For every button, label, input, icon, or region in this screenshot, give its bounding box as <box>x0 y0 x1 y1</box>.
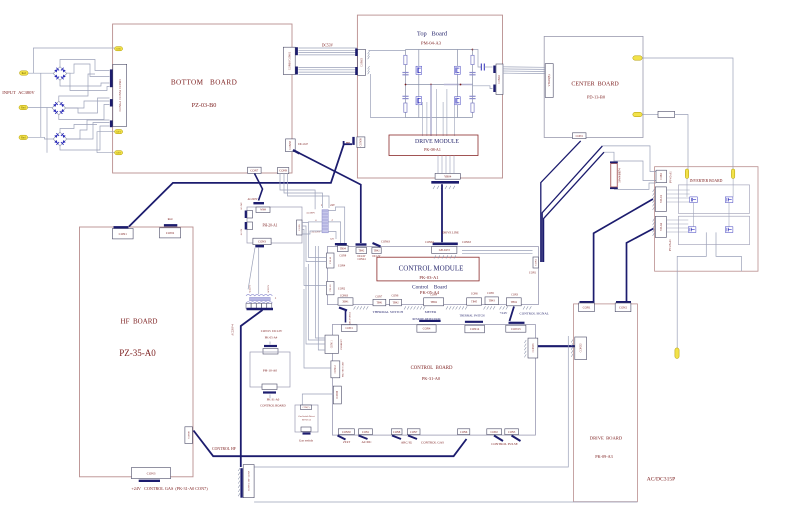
svg-text:CON5: CON5 <box>298 224 301 231</box>
pin bar CON50 <box>352 137 354 145</box>
transformer T2 secondary scallops <box>246 302 272 303</box>
wire arc force down <box>345 311 347 323</box>
svg-text:CON1: CON1 <box>119 232 128 236</box>
resistor R4 right bottom <box>471 103 474 112</box>
pin bar T2 bottom <box>247 308 274 311</box>
pin bar CON63 <box>110 120 113 127</box>
connector CON4 TB04 meter <box>424 298 444 306</box>
wire left vertical to CON11 <box>309 264 326 340</box>
pin bar CON1 HF <box>114 226 129 228</box>
wire mesh extra 4 <box>59 74 95 101</box>
pin bar CON8 bottom <box>392 436 401 440</box>
svg-text:PK-31-A0: PK-31-A0 <box>422 376 441 381</box>
wire transformer right mid <box>328 222 340 243</box>
svg-text:CON13: CON13 <box>511 327 521 331</box>
connector VH-10 (inverter left) <box>655 187 666 212</box>
module box inverter upper half-bridge <box>678 185 749 214</box>
connector VH-10 (control module left) <box>327 253 335 268</box>
svg-text:AC220V: AC220V <box>247 198 257 201</box>
svg-text:Gas Switch Detect: Gas Switch Detect <box>298 416 315 418</box>
svg-text:PZ-03-B0: PZ-03-B0 <box>192 102 217 109</box>
wire Q2 drain/source <box>418 85 420 97</box>
wire mesh extra 1 <box>67 73 110 90</box>
wire W1 center-board CON1 to control module CON1 <box>541 141 581 262</box>
wire bridge B2 lower output <box>59 105 110 120</box>
svg-text:Top Board: Top Board <box>417 31 448 38</box>
connector GB-0472 <box>432 247 457 254</box>
wire bridge B3 lower output <box>60 126 110 150</box>
svg-text:CON2: CON2 <box>619 305 627 309</box>
connector CON8-2 HF CON9 <box>243 465 254 498</box>
capacitor C2 left <box>402 95 408 97</box>
connector CON2 (HF board top) <box>160 228 181 238</box>
wire PH-10 bottom feed <box>269 395 271 399</box>
svg-text:CON6: CON6 <box>460 431 468 434</box>
capacitor C4 right <box>469 95 475 97</box>
wire H-bridge bottom rail <box>406 117 473 119</box>
pin bar left upper <box>245 211 247 219</box>
board outline: CONTROL BOARD <box>332 325 535 436</box>
svg-text:INPUT AC380V: INPUT AC380V <box>2 90 35 95</box>
svg-text:PV-05-A1: PV-05-A1 <box>670 171 673 183</box>
svg-text:CON4: CON4 <box>338 265 346 268</box>
pin bar CON1 bottom <box>359 436 368 440</box>
connector CON1 (control module right edge) <box>533 257 538 268</box>
board outline: Top Board <box>357 15 502 178</box>
pin bar CON58 <box>293 150 300 154</box>
connector CON3 TB04 <box>506 298 521 306</box>
pad C05 on bottom board edge <box>115 47 123 51</box>
wire CON33 link <box>538 345 575 347</box>
wire CON3 to HF transformer <box>248 248 255 290</box>
board outline: BOTTOM BOARD <box>113 24 292 173</box>
capacitor C5 output <box>480 64 482 71</box>
wire IGBT2 to IGBT4 <box>728 203 730 227</box>
wire drive module outputs down <box>437 156 439 174</box>
svg-text:CON1: CON1 <box>534 258 537 265</box>
module box PH-10-A0 <box>250 352 290 387</box>
svg-text:CF1: CF1 <box>116 131 121 134</box>
connector CON3 (HF board bottom) <box>132 468 171 479</box>
svg-text:TB04: TB04 <box>430 301 437 304</box>
svg-text:DRIVE BOARD: DRIVE BOARD <box>590 436 623 441</box>
svg-text:CON2: CON2 <box>491 431 499 434</box>
wire Q3 drain/source <box>456 50 458 67</box>
connector YB04 (meter top) <box>435 173 460 179</box>
wire bus vertical x40.8 <box>40 73 42 137</box>
wire gray bottom from CON8-2 to drive board <box>254 501 637 503</box>
connector PH-20-A1 right (CON5) <box>297 220 303 235</box>
wire inverter bottom bus <box>677 232 706 271</box>
board outline: CONTROL MODULE board <box>327 247 538 305</box>
svg-text:CON30: CON30 <box>342 431 351 434</box>
wire bridge B1 - output <box>67 64 110 77</box>
connector CON6-2 CON54 CON63 (bottom board left edge) <box>113 64 127 126</box>
control module title box <box>377 257 479 281</box>
pin bar above GB-0472 <box>433 243 458 246</box>
wire Red2 to bridge B2 <box>28 107 52 109</box>
wire CON62 to VH-09(B) bundle <box>503 66 546 69</box>
wire gate lines into drive module <box>430 85 432 137</box>
wire resistor top loop <box>614 161 656 181</box>
pin bar CON62 lower <box>493 85 495 93</box>
svg-text:CON1: CON1 <box>345 327 353 330</box>
connector CON4 (control board top) <box>417 325 436 332</box>
wire left vertical to CON11 b <box>306 267 325 344</box>
svg-text:GB-0472: GB-0472 <box>439 248 451 252</box>
connector CON1 (center board bottom) <box>573 133 587 139</box>
transistor Q2 (bottom-left MOSFET) <box>416 97 422 105</box>
wire inverter pad2 down <box>732 179 734 197</box>
wire W5 VH-04 to drive board CON2 <box>627 229 654 302</box>
wire W3 gray extension to resistor 50W4 <box>604 152 614 161</box>
connector TB04 CON9 (transformer feed) <box>338 246 349 252</box>
svg-text:INVERTER BOARD: INVERTER BOARD <box>690 179 723 183</box>
wire resistor bottom loop <box>614 183 656 189</box>
svg-text:CON12: CON12 <box>334 365 337 374</box>
connector CON7 (bottom board bottom) <box>248 167 262 173</box>
svg-text:AC-9V: AC-9V <box>240 228 243 235</box>
svg-text:CON15 DC12V: CON15 DC12V <box>261 329 283 333</box>
module box inverter lower half-bridge <box>678 216 749 245</box>
module box gas switch <box>295 405 318 432</box>
svg-text:Red: Red <box>21 106 26 109</box>
svg-text:CON8-2 HF CON9: CON8-2 HF CON9 <box>248 470 251 491</box>
pin bar CON7 bottom <box>408 436 417 440</box>
svg-text:CON1: CON1 <box>660 172 663 180</box>
svg-text:CON60/CON61: CON60/CON61 <box>289 51 292 70</box>
connector CON3 (PH-20-A1 bottom) <box>253 238 271 244</box>
svg-text:PD-03-A2: PD-03-A2 <box>302 419 311 422</box>
connector CON6 TB45 <box>467 298 482 305</box>
pin bar resistor bottom <box>610 187 618 189</box>
svg-text:BOTTOM BOARD: BOTTOM BOARD <box>171 79 237 87</box>
svg-text:XB41: XB41 <box>342 300 349 303</box>
svg-text:THERMAL SWITCH: THERMAL SWITCH <box>373 310 404 314</box>
wire W4 VH-10 to drive board CON1 <box>594 199 653 301</box>
connector CON9 (bottom board bottom) <box>278 168 289 174</box>
svg-text:CON2: CON2 <box>338 288 346 291</box>
svg-text:CON3: CON3 <box>147 471 156 475</box>
hatch control module bottom edge <box>354 306 369 309</box>
pin bar left lower <box>245 222 247 230</box>
svg-text:+24V CONTROL GAS (PK-31-A0: +24V CONTROL GAS (PK-31-A0 CON7) <box>131 486 208 491</box>
svg-text:CON5: CON5 <box>508 431 516 434</box>
svg-text:CB-10: CB-10 <box>329 284 332 291</box>
connector VH-04 (inverter left) <box>655 216 666 237</box>
pin bar CON62 upper <box>493 66 495 74</box>
wire DC53V bundle lower <box>298 67 357 69</box>
connector CON2 (control pulse) <box>487 429 502 435</box>
connector CON1 (HF board top) <box>112 229 133 239</box>
svg-text:CON30: CON30 <box>187 430 190 439</box>
hatch YB04 <box>433 186 455 189</box>
wire CON63 to top rail <box>369 50 406 52</box>
svg-text:DRIVE LINE: DRIVE LINE <box>442 231 459 235</box>
svg-text:PM-04-A3: PM-04-A3 <box>421 41 442 46</box>
svg-text:CON63: CON63 <box>340 295 349 298</box>
svg-text:CONTROL SIGNAL: CONTROL SIGNAL <box>520 312 549 316</box>
transistor Q3 (top-right MOSFET) <box>455 66 461 74</box>
resistor R2 left bottom <box>404 103 407 112</box>
bridge rectifier B3 <box>53 132 67 146</box>
pin bar CON8-2 left <box>240 468 242 498</box>
pin bar CON6-2 <box>110 69 113 87</box>
wire VH-10 outputs <box>666 189 689 191</box>
wire CON9 to transformer primary <box>280 174 315 210</box>
wire HF CON1 to CON50 (thick) <box>129 141 344 227</box>
svg-text:PH-10-A0: PH-10-A0 <box>263 369 277 373</box>
svg-text:AC220V: AC220V <box>249 285 252 294</box>
wire meter gray lines to CON1 <box>462 250 533 252</box>
connector CON5 TB43 <box>485 297 498 305</box>
wire remote detection bar <box>419 320 440 322</box>
pin bar CON61 <box>295 67 298 75</box>
svg-text:VH-04: VH-04 <box>659 222 663 231</box>
svg-text:CON(C): CON(C) <box>303 406 310 409</box>
wire bridge B3 output to CON63 pin <box>67 123 110 140</box>
svg-text:CON1: CON1 <box>576 135 584 138</box>
pin bar CON54 <box>110 99 113 106</box>
svg-text:CONTROL BOARD: CONTROL BOARD <box>260 404 286 408</box>
thermal switch bar <box>465 321 483 323</box>
resistor R1 left top <box>404 55 407 64</box>
pin bar CON2 bottom <box>494 436 503 442</box>
wire left vertical to CON12 <box>304 289 331 368</box>
wire inverter output down to pad <box>676 271 678 348</box>
connector VH-09(B) (center board left edge) <box>545 64 553 98</box>
svg-text:50W4/BR74: 50W4/BR74 <box>619 168 622 183</box>
connector CON1 (control board top-left) <box>341 325 357 332</box>
wire mesh extra 3 <box>67 120 110 139</box>
svg-text:CON2: CON2 <box>166 231 175 235</box>
pin bar above TB42 DC12V <box>373 243 381 247</box>
svg-text:CON11: CON11 <box>331 340 334 349</box>
svg-text:WH4: WH4 <box>260 209 266 212</box>
wire transformer right top to TB04 <box>328 207 344 243</box>
pin bar below TB03 <box>339 308 347 311</box>
svg-text:CON38: CON38 <box>336 390 339 399</box>
wire IGBT1 to IGBT3 <box>693 203 695 227</box>
svg-text:24V: 24V <box>330 204 335 207</box>
svg-text:PK-05-A4: PK-05-A4 <box>265 336 278 340</box>
pad center board right upper <box>633 56 642 60</box>
svg-text:CON3: CON3 <box>258 240 266 244</box>
wire capacitor to CON62 <box>484 66 492 68</box>
svg-text:CON5: CON5 <box>487 292 494 295</box>
pad CF2 <box>115 151 123 155</box>
wire PH-10 top feed <box>269 342 271 345</box>
svg-text:PK-31-A0: PK-31-A0 <box>267 398 280 402</box>
connector CON7 (control gas) <box>407 429 420 435</box>
board outline: CENTER BOARD <box>544 36 643 137</box>
pin bar gas switch bottom <box>303 432 311 434</box>
transformer T2 core <box>250 297 271 300</box>
svg-text:CON50: CON50 <box>360 138 363 147</box>
wire left vertical pair from transformer <box>316 246 326 338</box>
connector CON62 (top board right edge) <box>496 64 503 95</box>
svg-text:TB42: TB42 <box>358 249 365 252</box>
svg-text:THERMAL SWITCH: THERMAL SWITCH <box>460 315 485 318</box>
svg-text:CON3: CON3 <box>511 294 518 297</box>
wire Q4 drain/source <box>456 85 458 97</box>
connector CON30 (HF board right edge) <box>185 427 193 444</box>
svg-text:CON62: CON62 <box>498 75 501 84</box>
svg-text:REMOTE DETECTION: REMOTE DETECTION <box>413 318 441 321</box>
transistor Q4 (bottom-right MOSFET) <box>455 97 461 105</box>
resistor R5 (series) <box>658 111 675 117</box>
connector TB03 CON63 (arc force) <box>338 298 353 305</box>
connector CON6 (pulse in) <box>458 429 470 435</box>
pad CF1 <box>115 130 123 134</box>
wire CON63 to bottom rail <box>371 74 406 118</box>
svg-text:CON1: CON1 <box>529 272 537 275</box>
transistor Q1 (top-left MOSFET) <box>416 66 422 74</box>
connector CON7 TB41 <box>373 299 386 306</box>
connector TB42 DC12V <box>372 248 381 254</box>
svg-text:PH-20-A1: PH-20-A1 <box>263 224 278 228</box>
svg-text:CONTROL HF: CONTROL HF <box>212 447 236 451</box>
pin bar drive CON1 <box>580 301 595 303</box>
wire Red3 to bridge B3 <box>28 137 54 139</box>
pin bar CON63 lower <box>355 67 357 75</box>
wire right rail <box>472 50 474 118</box>
pin bar CON5 bottom <box>512 436 521 442</box>
wire DRIVE LINE vertical <box>441 184 443 242</box>
connector CON33 (drive board left edge) <box>575 337 587 360</box>
connector CON8 TB42 <box>390 299 402 306</box>
svg-text:TB41: TB41 <box>376 302 383 305</box>
pin bar PH-10 top <box>264 345 277 347</box>
connector gas switch bottom tab <box>301 427 311 432</box>
connector CON8 (arc/ig) <box>391 429 402 435</box>
svg-text:CON9: CON9 <box>339 255 346 258</box>
svg-text:PK-08-A1: PK-08-A1 <box>424 147 441 152</box>
svg-text:CON6: CON6 <box>471 293 478 296</box>
module box PH-20-A1 <box>247 207 302 243</box>
svg-text:AC380V: AC380V <box>306 212 315 215</box>
connector CON50 (top board bottom-left edge) <box>357 137 365 148</box>
capacitor C1 left <box>402 72 408 74</box>
bridge rectifier B2 <box>52 101 66 115</box>
connector CON2 (drive board top) <box>615 303 631 312</box>
resistor 50W4/BR74 <box>611 164 617 188</box>
svg-text:CON33: CON33 <box>532 343 535 352</box>
svg-text:CON9: CON9 <box>279 169 287 173</box>
wire CON58 to DC24V connector (thick diagonal) <box>299 153 361 243</box>
transistor IGBT4 <box>725 227 733 233</box>
svg-text:AC/DC315P: AC/DC315P <box>647 477 676 483</box>
svg-text:CON7: CON7 <box>250 168 258 172</box>
svg-text:DC12V: DC12V <box>372 255 380 258</box>
pin bar CON2 HF <box>164 224 177 226</box>
svg-text:Red: Red <box>168 217 173 221</box>
svg-text:CON8: CON8 <box>393 431 401 434</box>
hatch GB-0472 <box>434 255 456 258</box>
connector CON30 (2T4T) <box>338 429 354 435</box>
wire Q1 drain/source <box>418 50 420 67</box>
pad inverter top-right <box>731 169 734 179</box>
connector TB42 DC24V <box>356 248 367 254</box>
pad inverter top-left <box>685 169 688 179</box>
svg-text:Red: Red <box>21 136 26 139</box>
svg-text:DRIVE MODULE: DRIVE MODULE <box>415 139 459 145</box>
svg-text:CON33: CON33 <box>580 343 583 352</box>
module box DRIVE MODULE <box>389 135 478 156</box>
pin bar below YB04 <box>431 181 459 184</box>
connector PH-20-A1 left upper <box>247 211 253 219</box>
svg-text:CON4: CON4 <box>430 294 437 297</box>
wire bridge B1 + output to CON6-2 pin <box>60 60 110 71</box>
svg-text:TB42: TB42 <box>393 302 400 305</box>
resistor R3 right top <box>471 55 474 64</box>
connector PH-10 top tab <box>263 349 278 355</box>
pin bar CON30 bottom <box>338 436 346 440</box>
connector CON13 (control board top) <box>506 325 526 332</box>
transistor IGBT1 <box>690 197 698 203</box>
svg-text:+24V: +24V <box>500 311 508 315</box>
svg-text:PZ-35-A0: PZ-35-A0 <box>119 348 156 358</box>
board outline: HF BOARD <box>80 227 194 477</box>
svg-text:CON63: CON63 <box>462 241 471 244</box>
connector CB-10 (control module left) <box>327 282 335 295</box>
pad Red phase 1 <box>20 71 29 75</box>
wire left rail <box>405 50 407 118</box>
wire bus vertical x47 <box>46 108 48 153</box>
hatch CON8-2 <box>238 468 240 496</box>
connector CON33 (control board right edge) <box>528 338 538 358</box>
svg-text:PROTECT LED: PROTECT LED <box>343 362 345 378</box>
wire CON3 to CON13 thick zigzag <box>510 307 515 322</box>
wire resistor to inverter pad <box>675 115 689 170</box>
wire CON50 pin horizontal <box>344 143 352 145</box>
svg-text:METER: METER <box>425 310 437 314</box>
pin bar PH-20-A1 top <box>253 202 264 204</box>
node junction dots <box>405 84 407 86</box>
svg-text:HF BOARD: HF BOARD <box>121 318 158 326</box>
svg-text:TB43: TB43 <box>489 300 496 303</box>
svg-text:CON7: CON7 <box>375 295 382 298</box>
svg-text:CURRENT: CURRENT <box>341 339 343 350</box>
pin bar above TB04 CON9 <box>335 243 347 245</box>
svg-text:AC220V: AC220V <box>267 285 270 294</box>
svg-text:CON8: CON8 <box>392 294 399 297</box>
transistor IGBT3 <box>688 227 696 233</box>
svg-text:2T4T: 2T4T <box>343 440 350 444</box>
pin bar PH-10 bottom <box>263 391 276 393</box>
svg-text:CON63: CON63 <box>381 241 390 244</box>
svg-text:TB04: TB04 <box>511 301 518 304</box>
pin bar above CON13 <box>509 322 525 324</box>
wire mid rail to CON62 <box>473 86 493 89</box>
connector CON1 (inverter board) <box>656 170 667 183</box>
pin bar above TB42 DC24V <box>356 243 367 245</box>
svg-text:CON14: CON14 <box>470 327 480 331</box>
svg-text:CON1: CON1 <box>362 431 370 434</box>
wire VH-04 outputs <box>666 219 688 221</box>
svg-text:14V: 14V <box>330 238 335 241</box>
pin bar CON60 <box>295 47 298 55</box>
wire PH-20 right to control module CON4 b <box>302 226 327 262</box>
transformer T2 primary scallops <box>246 294 272 295</box>
pad center board right lower <box>633 112 642 116</box>
wire DC53V bundle upper <box>298 47 357 49</box>
wire bridge B2 output to CON54 pin <box>66 101 110 108</box>
connector CON5 (control pulse) <box>505 429 519 435</box>
svg-text:CON58: CON58 <box>289 141 292 150</box>
connector gas switch top tab <box>301 405 312 410</box>
svg-text:CON63: CON63 <box>360 58 363 67</box>
